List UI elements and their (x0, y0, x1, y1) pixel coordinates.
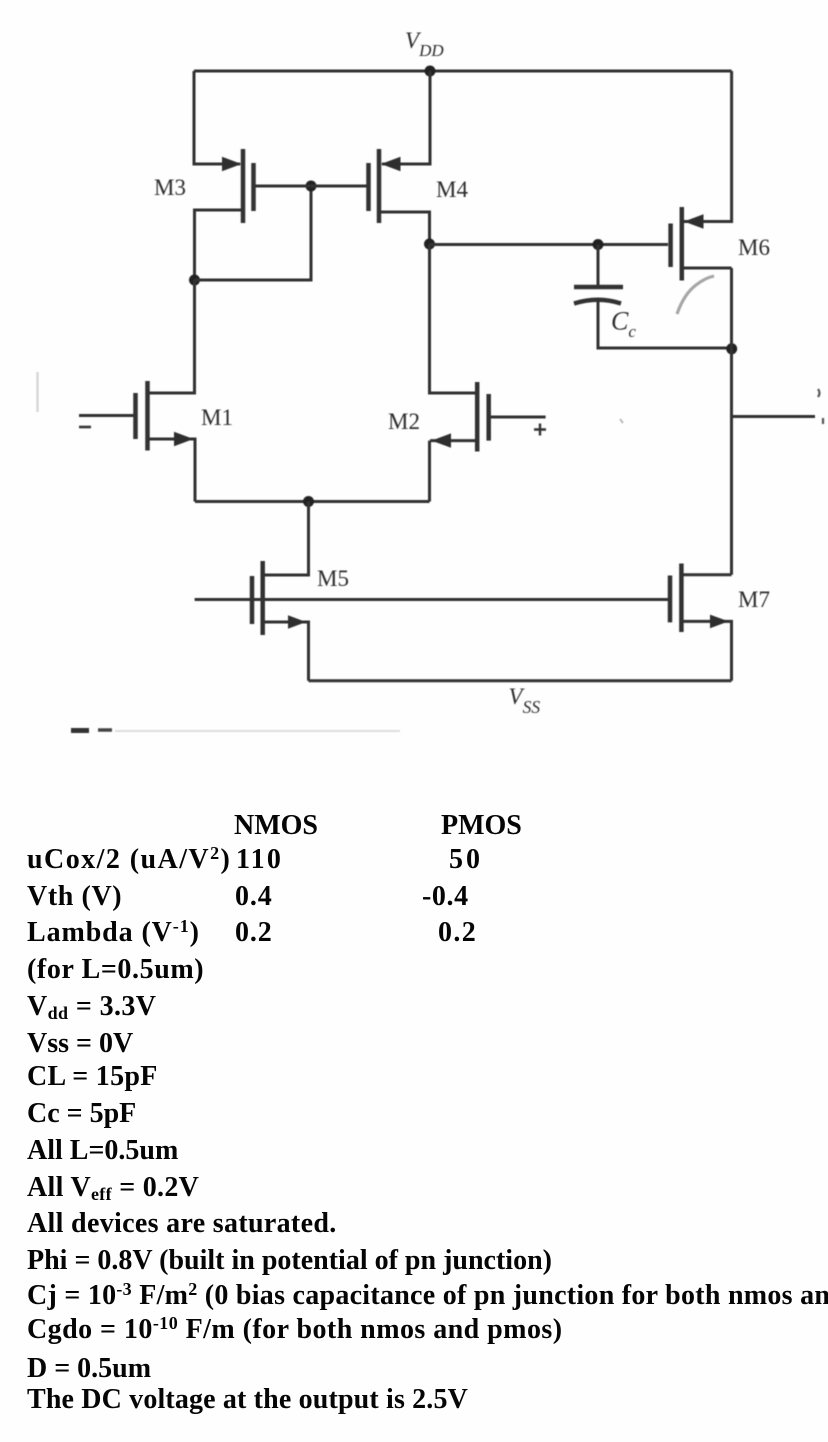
wire M1 source (148, 439, 196, 502)
transistor M5 channel bar (260, 561, 265, 635)
transistor M3 channel bar (241, 149, 246, 223)
VDD rail (194, 70, 732, 73)
wire bias line M5-M7 (195, 598, 668, 601)
text block (234, 812, 318, 840)
wire M6 drain to output rail (682, 268, 732, 575)
minus label (79, 426, 91, 429)
capacitor Cc top plate (574, 285, 623, 290)
wire output (732, 415, 816, 418)
artifact marks right edge (818, 389, 820, 397)
artifact faint smudge line (115, 730, 400, 732)
wire M4 drain to M2 drain (430, 244, 476, 393)
transistor M7 gate bar (668, 576, 673, 623)
transistor M6 source arrow (684, 214, 704, 228)
wire M6 source from VDD (684, 71, 732, 222)
transistor M1 gate bar (133, 393, 138, 439)
wire M4 drain (379, 212, 430, 244)
wire VSS rail (309, 679, 732, 682)
wire M3 drain down-left (195, 210, 244, 280)
transistor M7 channel bar (679, 564, 684, 633)
wire second stage input node (430, 243, 669, 246)
transistor M2 channel bar (475, 382, 480, 452)
transistor M1 channel bar (145, 381, 150, 451)
svg-text:VDD: VDD (405, 28, 444, 60)
node Cc bottom dot (726, 343, 737, 354)
svg-text:M4: M4 (436, 177, 468, 202)
node M3 drain dot (189, 275, 200, 286)
node M4 drain dot (424, 239, 435, 250)
wire Cc bottom (598, 300, 732, 348)
artifact faint speck (620, 419, 623, 423)
wire M1 drain riser (149, 280, 195, 393)
wire M2 source (430, 439, 477, 442)
transistor M4 gate bar (366, 163, 371, 211)
wire tail (195, 500, 430, 503)
wire tail to M5 drain (264, 502, 309, 576)
node VDD dot (425, 66, 436, 77)
plus label (534, 424, 546, 436)
transistor M3 gate bar (251, 163, 256, 211)
wire M4 source from VDD (382, 71, 430, 164)
svg-text:M6: M6 (738, 235, 770, 260)
svg-text:M7: M7 (738, 587, 770, 612)
transistor M5 gate bar (250, 576, 255, 624)
transistor M4 channel bar (377, 149, 382, 223)
wire gate line M3-M4 (255, 185, 367, 188)
transistor M7 source arrow (710, 615, 729, 629)
transistor M5 source arrow (288, 615, 306, 629)
capacitor Cc bottom plate (574, 300, 621, 304)
transistor M1 source arrow (174, 432, 194, 446)
wire M1 gate input (79, 414, 134, 417)
wire M7 drain (681, 573, 731, 576)
artifact dashes bottom left (71, 728, 89, 733)
svg-text:M5: M5 (317, 566, 349, 591)
transistor M2 source arrow (432, 433, 452, 447)
wire M5 source (263, 622, 309, 681)
artifact faint streak left (36, 372, 38, 412)
node tail dot (303, 496, 314, 507)
wire VDD left drop to M3 source (194, 71, 240, 164)
pencil scribble (677, 276, 714, 314)
svg-text:M3: M3 (154, 175, 186, 200)
transistor M4 source arrow (381, 157, 401, 171)
wire M2 gate input (491, 416, 546, 419)
wire M3 diode connection (195, 186, 312, 280)
svg-text:VSS: VSS (509, 684, 541, 717)
svg-text:M2: M2 (388, 409, 420, 434)
wire Cc top riser (597, 245, 600, 287)
transistor M2 gate bar (486, 394, 491, 441)
transistor M3 (PMOS) source arrow (222, 157, 242, 171)
svg-text:Cc: Cc (611, 307, 636, 342)
transistor M6 gate bar (668, 224, 673, 268)
transistor M6 channel bar (680, 207, 685, 281)
wire M2 source to tail (428, 441, 431, 502)
svg-text:M1: M1 (201, 405, 233, 430)
wire M7 source (681, 621, 731, 680)
node Cc top dot (593, 239, 604, 250)
node gate line dot (306, 181, 317, 192)
